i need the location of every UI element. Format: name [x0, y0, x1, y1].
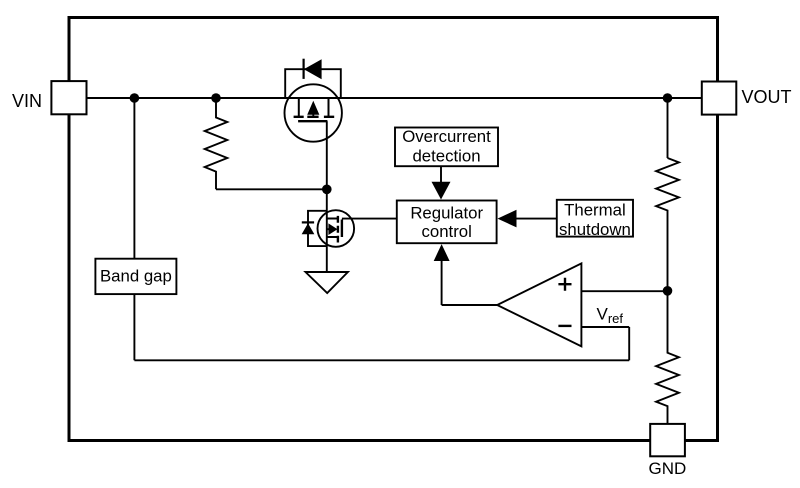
svg-text:VIN: VIN [12, 91, 42, 111]
wire main rail VIN to VOUT [87, 97, 702, 99]
wire arrow overcurrent to regulator [432, 166, 451, 199]
svg-text:shutdown: shutdown [559, 220, 631, 239]
wire arrow op-amp to regulator [434, 244, 450, 261]
block Thermal shutdown [557, 200, 633, 239]
resistor R3 feedback lower [656, 291, 679, 424]
diode D2 body diode loop [308, 211, 327, 246]
ground symbol [306, 272, 348, 293]
wire band gap output down [133, 294, 135, 360]
pad VOUT [702, 82, 737, 115]
diode D2 symbol [302, 222, 314, 233]
block Regulator control [397, 201, 497, 244]
wire Q1 gate down through Q2 to ground [326, 121, 328, 272]
wire arrow thermal shutdown to regulator [498, 210, 557, 228]
wire op-amp output [442, 261, 498, 306]
wire Vref feedback long horizontal [134, 359, 629, 361]
IC boundary box [69, 18, 718, 441]
svg-text:Regulator: Regulator [410, 203, 483, 222]
block Overcurrent detection [395, 127, 498, 166]
wire Q2 gate to regulator control [342, 218, 397, 220]
resistor R2 feedback upper [656, 158, 679, 291]
svg-text:Vref: Vref [597, 305, 624, 326]
svg-text:Band gap: Band gap [100, 267, 172, 286]
svg-text:Thermal: Thermal [564, 201, 626, 220]
wire R1 bottom to gate node [216, 188, 327, 190]
diode D1 body diode loop [285, 69, 341, 98]
node rail R1 tap [211, 93, 221, 103]
svg-text:GND: GND [649, 459, 687, 478]
pad VIN [51, 81, 86, 114]
wire Vref riser [628, 327, 630, 360]
diode D1 symbol [304, 59, 322, 79]
svg-text:VOUT: VOUT [742, 87, 792, 107]
transistor Q2 gate driver NMOS [318, 210, 355, 247]
wire band gap feed from rail [133, 98, 135, 259]
node rail band gap tap [130, 93, 140, 103]
node rail VOUT branch [663, 93, 673, 103]
block Band gap [95, 259, 176, 294]
svg-text:detection: detection [412, 147, 480, 166]
wire op-amp non-inverting input to divider tap [581, 290, 667, 292]
wire op-amp inverting input [581, 326, 629, 328]
op-amp U1 error amplifier [497, 263, 581, 346]
transistor Q1 pass PMOS [285, 84, 342, 141]
wire VOUT branch down [667, 98, 669, 158]
svg-text:Overcurrent: Overcurrent [402, 127, 491, 146]
resistor R1 gate bias [205, 98, 228, 189]
node divider tap [663, 286, 673, 296]
pad GND [650, 424, 685, 456]
node gate junction [322, 185, 332, 195]
svg-text:control: control [422, 222, 472, 241]
